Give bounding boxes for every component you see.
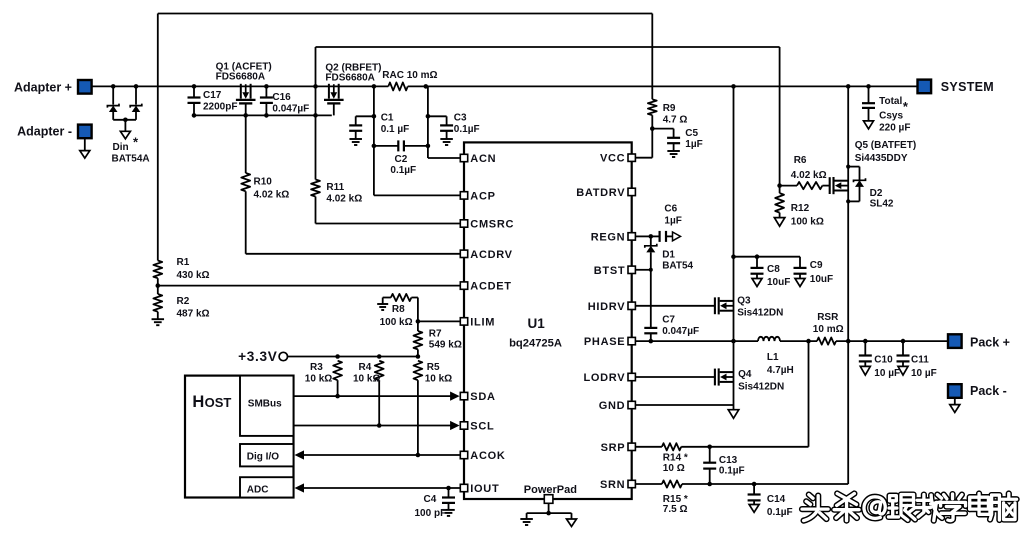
svg-text:R8: R8 bbox=[392, 304, 405, 315]
svg-text:D1: D1 bbox=[662, 249, 675, 260]
svg-text:430 kΩ: 430 kΩ bbox=[177, 270, 210, 281]
svg-text:GND: GND bbox=[599, 400, 626, 412]
svg-text:Dig I/O: Dig I/O bbox=[247, 452, 279, 463]
svg-text:487 kΩ: 487 kΩ bbox=[177, 309, 210, 320]
svg-text:Adapter +: Adapter + bbox=[14, 80, 72, 94]
svg-text:+3.3V: +3.3V bbox=[238, 349, 277, 364]
svg-text:100 kΩ: 100 kΩ bbox=[791, 217, 824, 228]
svg-text:R3: R3 bbox=[310, 362, 323, 373]
svg-text:Q1 (ACFET): Q1 (ACFET) bbox=[216, 61, 272, 72]
svg-text:ACP: ACP bbox=[470, 190, 495, 202]
svg-text:10uF: 10uF bbox=[810, 274, 833, 285]
svg-text:R5: R5 bbox=[427, 362, 440, 373]
svg-text:Q3: Q3 bbox=[737, 295, 751, 306]
svg-text:10 µF: 10 µF bbox=[874, 368, 900, 379]
svg-text:4.7µH: 4.7µH bbox=[767, 365, 794, 376]
svg-text:ACDRV: ACDRV bbox=[470, 249, 512, 261]
svg-text:BAT54: BAT54 bbox=[662, 261, 693, 272]
svg-text:CMSRC: CMSRC bbox=[470, 219, 514, 231]
svg-text:C3: C3 bbox=[454, 113, 467, 124]
svg-text:PHASE: PHASE bbox=[584, 336, 625, 348]
svg-text:RAC 10 mΩ: RAC 10 mΩ bbox=[382, 70, 437, 81]
svg-text:Adapter -: Adapter - bbox=[17, 124, 72, 138]
svg-text:PowerPad: PowerPad bbox=[524, 484, 577, 496]
svg-text:0.1µF: 0.1µF bbox=[719, 465, 745, 476]
svg-text:R1: R1 bbox=[177, 257, 190, 268]
svg-text:C16: C16 bbox=[272, 92, 291, 103]
svg-text:BATDRV: BATDRV bbox=[576, 187, 625, 199]
svg-text:L1: L1 bbox=[767, 352, 779, 363]
svg-text:R7: R7 bbox=[429, 328, 442, 339]
svg-text:LODRV: LODRV bbox=[583, 372, 625, 384]
svg-text:0.047µF: 0.047µF bbox=[662, 326, 699, 337]
svg-text:0.1µF: 0.1µF bbox=[454, 124, 480, 135]
svg-text:OST: OST bbox=[205, 395, 232, 410]
svg-text:REGN: REGN bbox=[591, 231, 626, 243]
svg-text:ACN: ACN bbox=[470, 153, 496, 165]
svg-text:549 kΩ: 549 kΩ bbox=[429, 340, 462, 351]
svg-text:C10: C10 bbox=[874, 355, 893, 366]
svg-text:C11: C11 bbox=[911, 355, 929, 366]
svg-text:SCL: SCL bbox=[470, 421, 494, 433]
svg-text:R12: R12 bbox=[791, 203, 810, 214]
svg-text:10 mΩ: 10 mΩ bbox=[813, 324, 844, 335]
svg-text:Pack -: Pack - bbox=[970, 384, 1007, 398]
svg-text:10 kΩ: 10 kΩ bbox=[425, 374, 452, 385]
svg-text:Q4: Q4 bbox=[738, 369, 752, 380]
svg-text:H: H bbox=[192, 393, 204, 411]
svg-text:4.02 kΩ: 4.02 kΩ bbox=[326, 194, 362, 205]
svg-text:ACDET: ACDET bbox=[470, 281, 511, 293]
svg-text:C4: C4 bbox=[424, 494, 437, 505]
svg-text:C7: C7 bbox=[662, 315, 675, 326]
svg-text:C14: C14 bbox=[767, 494, 786, 505]
svg-text:SDA: SDA bbox=[470, 391, 495, 403]
svg-text:SYSTEM: SYSTEM bbox=[941, 80, 994, 94]
svg-text:Si4435DDY: Si4435DDY bbox=[855, 153, 908, 164]
svg-text:Sis412DN: Sis412DN bbox=[738, 382, 784, 393]
svg-text:SRN: SRN bbox=[600, 479, 625, 491]
svg-text:RSR: RSR bbox=[817, 312, 839, 323]
svg-text:IOUT: IOUT bbox=[470, 483, 499, 495]
svg-text:10 Ω: 10 Ω bbox=[663, 463, 685, 474]
svg-text:C8: C8 bbox=[767, 264, 780, 275]
svg-text:VCC: VCC bbox=[600, 153, 625, 165]
svg-text:R9: R9 bbox=[663, 103, 676, 114]
svg-text:ADC: ADC bbox=[247, 484, 269, 495]
svg-text:bq24725A: bq24725A bbox=[509, 338, 562, 350]
svg-text:100 pF: 100 pF bbox=[415, 508, 447, 519]
svg-text:R2: R2 bbox=[177, 296, 190, 307]
svg-text:100 kΩ: 100 kΩ bbox=[380, 317, 413, 328]
svg-text:HIDRV: HIDRV bbox=[588, 301, 626, 313]
svg-text:220 µF: 220 µF bbox=[879, 123, 910, 134]
svg-text:10 µF: 10 µF bbox=[911, 368, 937, 379]
svg-text:ILIM: ILIM bbox=[470, 316, 495, 328]
svg-text:C9: C9 bbox=[810, 260, 823, 271]
svg-text:C1: C1 bbox=[381, 113, 394, 124]
svg-text:10 kΩ: 10 kΩ bbox=[353, 374, 380, 385]
svg-text:R11: R11 bbox=[326, 182, 344, 193]
svg-text:2200pF: 2200pF bbox=[203, 102, 237, 113]
svg-text:4.02 kΩ: 4.02 kΩ bbox=[254, 189, 290, 200]
svg-text:0.1µF: 0.1µF bbox=[390, 165, 416, 176]
svg-text:Total: Total bbox=[879, 96, 902, 107]
svg-text:4.02 kΩ: 4.02 kΩ bbox=[791, 170, 827, 181]
svg-text:Csys: Csys bbox=[879, 110, 903, 121]
svg-text:R10: R10 bbox=[254, 177, 273, 188]
svg-text:FDS6680A: FDS6680A bbox=[325, 72, 374, 83]
svg-text:ACOK: ACOK bbox=[470, 450, 505, 462]
svg-text:Din: Din bbox=[113, 142, 129, 153]
svg-text:Sis412DN: Sis412DN bbox=[737, 308, 783, 319]
svg-text:7.5 Ω: 7.5 Ω bbox=[663, 504, 688, 515]
svg-text:C2: C2 bbox=[395, 154, 408, 165]
svg-text:0.047µF: 0.047µF bbox=[272, 103, 309, 114]
svg-text:4.7 Ω: 4.7 Ω bbox=[663, 115, 688, 126]
svg-text:10 kΩ: 10 kΩ bbox=[305, 374, 332, 385]
svg-text:1µF: 1µF bbox=[664, 215, 681, 226]
svg-text:R4: R4 bbox=[359, 362, 372, 373]
svg-text:C17: C17 bbox=[203, 90, 222, 101]
svg-text:SRP: SRP bbox=[601, 442, 626, 454]
svg-text:0.1µF: 0.1µF bbox=[767, 507, 793, 518]
svg-text:Q5 (BATFET): Q5 (BATFET) bbox=[855, 140, 916, 151]
svg-text:SL42: SL42 bbox=[870, 198, 894, 209]
svg-text:SMBus: SMBus bbox=[248, 399, 282, 410]
svg-text:R6: R6 bbox=[794, 155, 807, 166]
svg-text:1µF: 1µF bbox=[685, 139, 702, 150]
svg-text:BAT54A: BAT54A bbox=[112, 154, 150, 165]
svg-text:C5: C5 bbox=[685, 128, 698, 139]
svg-text:C6: C6 bbox=[664, 204, 677, 215]
svg-text:BTST: BTST bbox=[594, 265, 626, 277]
svg-text:0.1 µF: 0.1 µF bbox=[381, 124, 410, 135]
svg-text:FDS6680A: FDS6680A bbox=[216, 72, 265, 83]
svg-text:10uF: 10uF bbox=[767, 277, 790, 288]
svg-text:U1: U1 bbox=[528, 316, 546, 331]
svg-text:Pack +: Pack + bbox=[970, 335, 1010, 349]
